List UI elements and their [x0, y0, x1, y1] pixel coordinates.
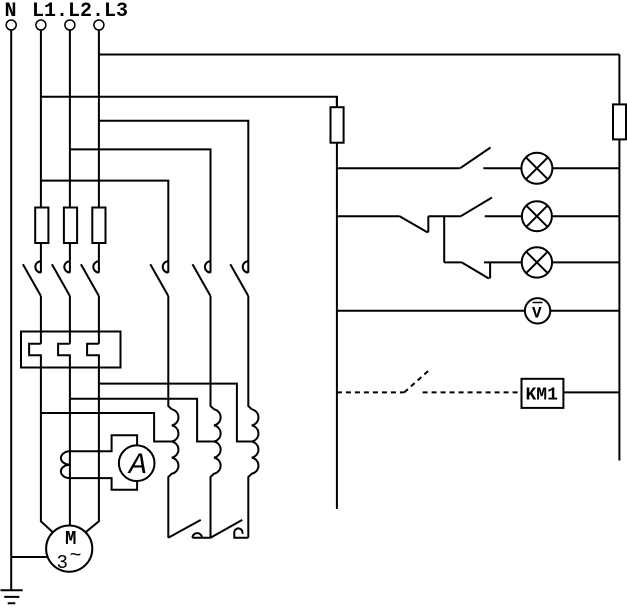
- thermal relay FR box: [21, 332, 121, 368]
- svg-text:KM1: KM1: [526, 386, 559, 406]
- star contact 2 fixed: [234, 528, 248, 537]
- autotransformer T1 winding: [168, 409, 178, 538]
- wire QS1 pole2 to relay: [69, 296, 71, 344]
- wire L1 vertical upper: [40, 30, 42, 208]
- voltmeter row wire left: [337, 310, 525, 312]
- wire L2 branch to QS2 pole2: [70, 149, 211, 258]
- svg-text:V: V: [532, 305, 542, 323]
- row1 wire left: [337, 167, 460, 169]
- row1 wire lamp to bus: [552, 167, 619, 169]
- switch QS1 pole3: [81, 259, 99, 297]
- relay heater element 2: [58, 344, 70, 399]
- svg-text:~: ~: [70, 545, 82, 568]
- wire FU2 to QS1: [69, 243, 71, 259]
- wire L1 to left bus: [41, 97, 337, 107]
- wire FU1 to QS1: [40, 243, 42, 259]
- wire L3 vertical upper: [98, 30, 100, 208]
- wire L1 relay to motor: [41, 413, 53, 532]
- ammeter CT winding: [61, 451, 70, 478]
- wire CT to ammeter top: [70, 435, 137, 451]
- row2 wire to lamp: [485, 215, 522, 217]
- switch QS1 pole2: [52, 259, 70, 297]
- lamp HL3: [522, 247, 552, 277]
- wire QS2 pole2 to T2: [211, 296, 215, 409]
- star contact 1 fixed: [193, 533, 211, 538]
- wire QS1 pole1 to relay: [40, 296, 42, 344]
- star contact 1 blade: [168, 520, 201, 538]
- svg-text:A: A: [127, 449, 147, 483]
- KM1 row dashed wire right: [423, 391, 522, 393]
- svg-text:L1.L2.L3: L1.L2.L3: [32, 0, 128, 23]
- wire L2 relay to motor: [69, 399, 71, 526]
- lamp HL2: [522, 201, 552, 231]
- wire QS2 pole3 to T3: [248, 296, 252, 409]
- wire L1 tap to T1: [41, 413, 172, 442]
- KM1 contact blade dashed: [404, 369, 430, 392]
- switch QS2 pole3: [230, 259, 248, 297]
- row3 wire to lamp: [484, 261, 522, 263]
- row1 switch blade: [460, 148, 491, 169]
- right bus vertical: [618, 55, 620, 461]
- wire L2 tap to T2: [70, 399, 214, 442]
- left bus vertical: [336, 97, 338, 509]
- wire CT to ammeter bottom: [70, 478, 137, 490]
- fuse FU3: [92, 208, 105, 244]
- wire L3 relay to motor: [86, 384, 99, 533]
- relay heater element 3: [87, 344, 99, 384]
- row3 wire lamp to bus: [552, 261, 619, 263]
- wire L1 branch to QS2 pole1: [41, 181, 168, 259]
- wire L3 to right bus top: [99, 54, 620, 56]
- fuse FU5: [613, 104, 626, 139]
- wire QS2 pole1 to T1: [168, 296, 172, 409]
- autotransformer T3 winding: [248, 409, 258, 538]
- star contact 2 blade: [211, 520, 243, 538]
- row2 linkage: [400, 216, 461, 262]
- voltmeter wire to bus: [550, 310, 619, 312]
- wire KM1 to bus: [563, 391, 619, 393]
- fuse FU2: [64, 208, 77, 244]
- fuse FU1: [35, 208, 48, 244]
- relay heater element 1: [29, 344, 41, 413]
- row3 switch blade: [462, 262, 490, 278]
- terminal N: [6, 20, 16, 30]
- row1 wire to lamp: [483, 167, 521, 169]
- row3 wire left: [444, 261, 462, 263]
- row2 switch blade: [461, 198, 492, 217]
- ammeter A circle: [119, 445, 155, 481]
- contactor coil KM1 box: [522, 379, 564, 408]
- ground: [1, 590, 23, 603]
- wire N to motor: [11, 556, 48, 558]
- lamp HL1: [521, 153, 552, 184]
- switch QS2 pole2: [193, 259, 211, 297]
- svg-text:3: 3: [57, 552, 68, 574]
- KM1 row dashed wire left: [337, 391, 404, 393]
- wire L2 vertical upper: [69, 30, 71, 208]
- wire FU3 to QS1: [98, 243, 100, 259]
- switch QS1 pole1: [23, 259, 41, 297]
- fuse FU4: [331, 107, 344, 143]
- wire L3 branch to QS2 pole3: [99, 121, 248, 259]
- row2 wire lamp to bus: [552, 215, 620, 217]
- wire QS1 pole3 to relay: [98, 296, 100, 344]
- terminal L3: [94, 20, 104, 30]
- row2 wire left: [337, 215, 400, 217]
- autotransformer T2 winding: [211, 409, 221, 538]
- terminal L2: [65, 20, 75, 30]
- voltmeter V circle: [525, 298, 550, 323]
- wire N vertical: [10, 30, 12, 590]
- motor M circle: [46, 526, 92, 572]
- terminal L1: [36, 20, 46, 30]
- wire L3 tap to T3: [99, 384, 252, 442]
- switch QS2 pole1: [150, 259, 168, 297]
